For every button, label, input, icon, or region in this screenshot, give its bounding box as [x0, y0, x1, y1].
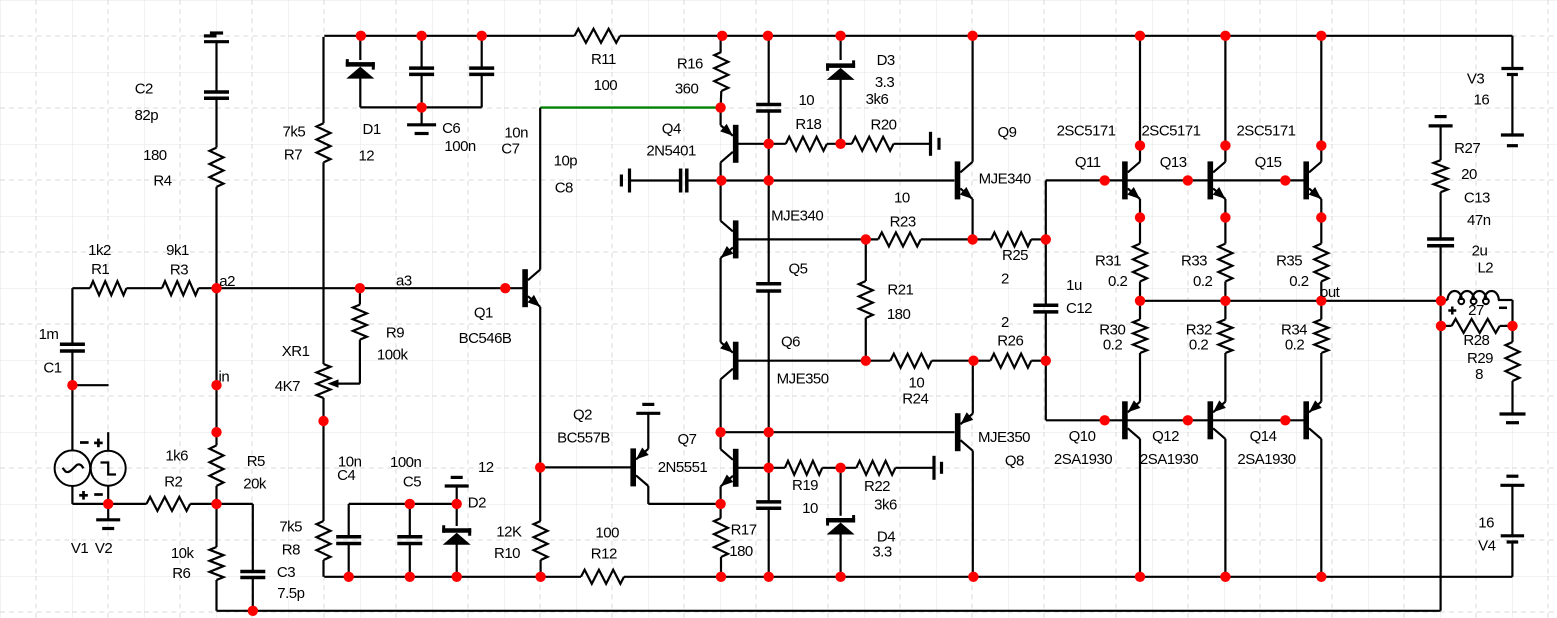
- svg-text:12: 12: [358, 148, 374, 165]
- svg-text:Q6: Q6: [781, 333, 800, 350]
- svg-text:12K: 12K: [496, 524, 522, 541]
- svg-text:2SA1930: 2SA1930: [1140, 451, 1198, 468]
- svg-text:V3: V3: [1467, 71, 1485, 88]
- svg-text:D3: D3: [877, 52, 895, 69]
- svg-text:a3: a3: [396, 273, 412, 290]
- svg-text:12: 12: [478, 459, 494, 476]
- svg-text:Q14: Q14: [1250, 428, 1277, 445]
- svg-text:100n: 100n: [390, 454, 422, 471]
- svg-text:R10: R10: [494, 545, 520, 562]
- svg-text:4K7: 4K7: [275, 378, 300, 395]
- svg-text:Q11: Q11: [1075, 154, 1101, 171]
- svg-text:R33: R33: [1181, 253, 1207, 270]
- svg-text:C13: C13: [1464, 189, 1490, 206]
- svg-text:R21: R21: [887, 282, 913, 299]
- svg-text:R16: R16: [677, 56, 703, 73]
- svg-text:7.5p: 7.5p: [277, 585, 304, 602]
- svg-text:V2: V2: [95, 540, 113, 557]
- svg-text:8: 8: [1475, 366, 1483, 383]
- svg-text:Q1: Q1: [474, 305, 493, 322]
- svg-text:10: 10: [894, 190, 910, 207]
- svg-text:7k5: 7k5: [279, 519, 302, 536]
- svg-text:180: 180: [143, 147, 167, 164]
- svg-text:0.2: 0.2: [1108, 273, 1128, 290]
- svg-text:MJE350: MJE350: [978, 429, 1030, 446]
- svg-text:2N5401: 2N5401: [646, 143, 696, 160]
- svg-text:BC557B: BC557B: [557, 430, 610, 447]
- svg-text:R27: R27: [1454, 140, 1480, 157]
- svg-text:C1: C1: [43, 360, 61, 377]
- svg-text:C7: C7: [501, 141, 519, 158]
- svg-text:Q9: Q9: [997, 124, 1016, 141]
- svg-text:V4: V4: [1478, 537, 1496, 554]
- svg-text:C3: C3: [277, 564, 295, 581]
- svg-text:in: in: [219, 369, 230, 386]
- svg-text:R26: R26: [997, 332, 1023, 349]
- svg-text:R35: R35: [1276, 253, 1302, 270]
- svg-text:100n: 100n: [444, 138, 476, 155]
- svg-text:C5: C5: [403, 474, 421, 491]
- svg-text:C2: C2: [135, 81, 153, 98]
- svg-text:Q7: Q7: [677, 431, 696, 448]
- svg-text:10k: 10k: [171, 545, 195, 562]
- svg-text:2: 2: [1001, 271, 1009, 288]
- svg-text:R1: R1: [91, 261, 109, 278]
- svg-text:2SA1930: 2SA1930: [1054, 451, 1112, 468]
- svg-text:2N5551: 2N5551: [658, 459, 708, 476]
- svg-text:D1: D1: [363, 121, 381, 138]
- svg-text:82p: 82p: [135, 107, 159, 124]
- svg-text:MJE340: MJE340: [771, 207, 823, 224]
- svg-text:2SA1930: 2SA1930: [1237, 451, 1295, 468]
- svg-text:R3: R3: [170, 262, 188, 279]
- svg-text:100: 100: [594, 77, 618, 94]
- svg-text:Q10: Q10: [1069, 428, 1096, 445]
- svg-text:MJE340: MJE340: [979, 170, 1031, 187]
- svg-text:Q13: Q13: [1160, 154, 1187, 171]
- svg-text:180: 180: [887, 306, 911, 323]
- svg-text:MJE350: MJE350: [777, 371, 829, 388]
- svg-text:R19: R19: [792, 477, 818, 494]
- svg-text:R23: R23: [890, 214, 916, 231]
- svg-text:Q2: Q2: [573, 407, 592, 424]
- svg-text:3k6: 3k6: [874, 497, 897, 514]
- svg-text:BC546B: BC546B: [459, 330, 512, 347]
- svg-text:D2: D2: [468, 495, 486, 512]
- svg-text:10: 10: [802, 500, 818, 517]
- svg-text:Q15: Q15: [1255, 154, 1282, 171]
- svg-text:L2: L2: [1477, 259, 1493, 276]
- svg-text:Q8: Q8: [1005, 453, 1024, 470]
- svg-text:R6: R6: [172, 565, 190, 582]
- svg-text:R8: R8: [282, 542, 300, 559]
- svg-text:R29: R29: [1467, 350, 1493, 367]
- svg-text:R12: R12: [591, 546, 617, 563]
- svg-text:2SC5171: 2SC5171: [1141, 122, 1200, 139]
- svg-text:R28: R28: [1463, 332, 1489, 349]
- svg-text:R7: R7: [284, 147, 302, 164]
- svg-text:XR1: XR1: [282, 343, 310, 360]
- svg-text:R5: R5: [247, 453, 265, 470]
- svg-text:100: 100: [595, 525, 619, 542]
- svg-text:10: 10: [798, 92, 814, 109]
- svg-text:out: out: [1320, 284, 1341, 301]
- svg-text:100k: 100k: [377, 347, 409, 364]
- svg-text:C12: C12: [1066, 300, 1092, 317]
- svg-text:47n: 47n: [1467, 212, 1491, 229]
- svg-text:1m: 1m: [39, 326, 59, 343]
- svg-text:2u: 2u: [1472, 243, 1488, 260]
- svg-text:1k2: 1k2: [88, 242, 111, 259]
- svg-text:3.3: 3.3: [875, 74, 895, 91]
- svg-text:3.3: 3.3: [872, 544, 892, 561]
- svg-text:16: 16: [1478, 515, 1494, 532]
- svg-text:360: 360: [675, 81, 699, 98]
- svg-text:R9: R9: [386, 324, 404, 341]
- svg-text:2SC5171: 2SC5171: [1236, 122, 1295, 139]
- svg-text:a2: a2: [219, 273, 235, 290]
- svg-text:1k6: 1k6: [165, 447, 188, 464]
- svg-text:C6: C6: [442, 120, 460, 137]
- svg-text:20: 20: [1461, 166, 1477, 183]
- svg-text:0.2: 0.2: [1103, 337, 1123, 354]
- svg-text:R31: R31: [1095, 253, 1121, 270]
- svg-text:R25: R25: [1002, 247, 1028, 264]
- svg-text:10: 10: [909, 375, 925, 392]
- svg-text:10n: 10n: [504, 125, 528, 142]
- svg-text:R18: R18: [795, 116, 821, 133]
- svg-text:R24: R24: [902, 391, 928, 408]
- svg-text:1u: 1u: [1066, 277, 1082, 294]
- svg-text:R4: R4: [153, 172, 171, 189]
- svg-text:16: 16: [1474, 91, 1490, 108]
- svg-text:Q5: Q5: [788, 260, 807, 277]
- svg-text:20k: 20k: [243, 476, 267, 493]
- svg-text:R22: R22: [864, 478, 890, 495]
- svg-text:2SC5171: 2SC5171: [1057, 122, 1116, 139]
- svg-text:3k6: 3k6: [866, 91, 889, 108]
- svg-text:Q4: Q4: [662, 121, 681, 138]
- svg-text:27: 27: [1468, 302, 1484, 319]
- svg-text:Q12: Q12: [1152, 428, 1179, 445]
- svg-text:R11: R11: [591, 51, 616, 68]
- svg-text:C4: C4: [337, 467, 355, 484]
- svg-text:C8: C8: [555, 180, 573, 197]
- svg-text:0.2: 0.2: [1189, 337, 1209, 354]
- svg-text:7k5: 7k5: [283, 123, 306, 140]
- svg-text:R17: R17: [731, 522, 757, 539]
- svg-text:0.2: 0.2: [1289, 273, 1309, 290]
- svg-text:180: 180: [729, 543, 753, 560]
- svg-text:R2: R2: [164, 473, 182, 490]
- svg-text:2: 2: [1001, 314, 1009, 331]
- svg-text:9k1: 9k1: [166, 242, 189, 259]
- svg-text:R20: R20: [870, 116, 896, 133]
- svg-text:V1: V1: [71, 540, 89, 557]
- svg-text:0.2: 0.2: [1193, 273, 1213, 290]
- svg-text:10p: 10p: [554, 153, 578, 170]
- svg-text:0.2: 0.2: [1285, 337, 1305, 354]
